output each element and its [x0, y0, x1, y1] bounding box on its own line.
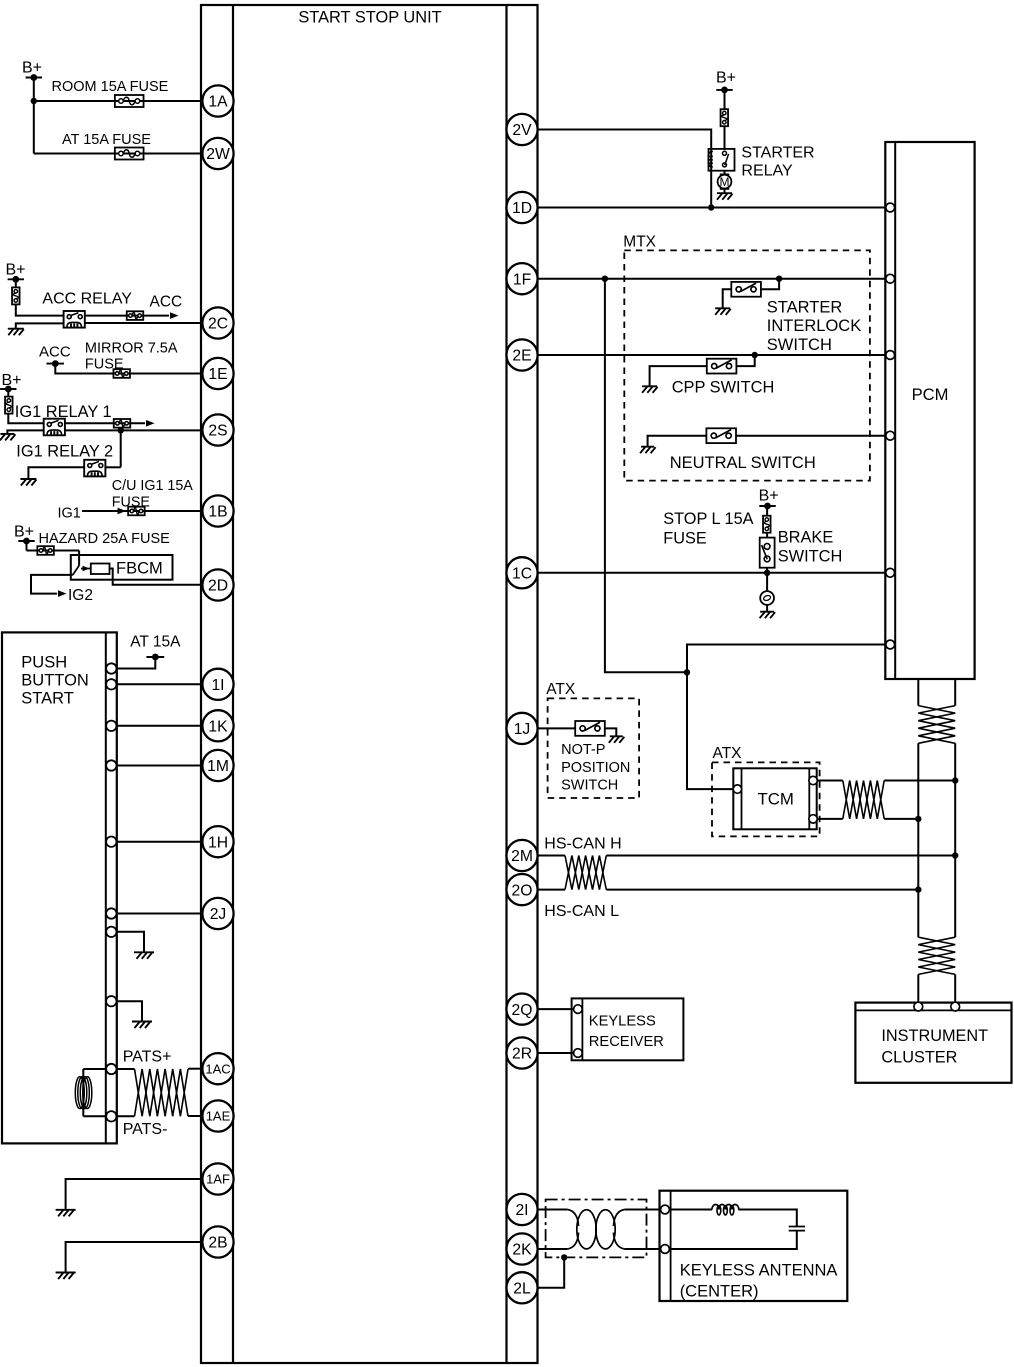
svg-text:ACC RELAY: ACC RELAY — [42, 291, 132, 308]
svg-text:ATX: ATX — [546, 681, 576, 698]
starter relay contacts — [723, 151, 727, 155]
ground stop lamp — [760, 612, 776, 619]
arrow IG1 feed — [146, 420, 155, 427]
starter motor — [721, 174, 729, 189]
wire button to 1M — [117, 765, 203, 767]
fuse STOP L 15A — [763, 516, 771, 533]
wire NEUTRAL to PCM — [736, 435, 885, 437]
PCM pin 1D-side — [886, 203, 895, 212]
pin 2V — [506, 114, 537, 145]
wire TCM CAN-H — [817, 780, 843, 782]
pin 1AE — [202, 1100, 233, 1131]
twisted pair TCM — [843, 781, 884, 819]
wire 1C to PCM — [538, 572, 886, 574]
wire button ground 1 — [117, 932, 145, 952]
svg-text:1J: 1J — [514, 721, 531, 738]
node junction TCM feed — [684, 669, 690, 675]
svg-text:MTX: MTX — [623, 234, 656, 251]
svg-text:POSITION: POSITION — [561, 760, 630, 776]
wire antenna to inductor — [669, 1209, 712, 1211]
fuse ROOM 15A — [115, 95, 144, 107]
wire relay to motor — [724, 171, 726, 175]
pin 1D — [506, 192, 537, 223]
svg-text:RECEIVER: RECEIVER — [589, 1034, 664, 1050]
wire B+ to fuse — [724, 90, 726, 110]
svg-text:1H: 1H — [208, 834, 228, 851]
antenna pin bottom — [661, 1245, 670, 1254]
svg-text:2C: 2C — [208, 316, 228, 333]
svg-text:HS-CAN L: HS-CAN L — [544, 903, 619, 920]
svg-text:(CENTER): (CENTER) — [680, 1282, 759, 1300]
wire button to 1K — [117, 725, 203, 727]
wire TCM CAN-H to trunk — [884, 780, 955, 782]
wire motor to ground — [724, 188, 726, 192]
wire inductor to capacitor — [738, 1210, 797, 1227]
fuse starter relay B+ — [721, 109, 729, 126]
wire resistor to 2D — [110, 569, 203, 585]
ground starter interlock — [715, 308, 731, 315]
svg-text:B+: B+ — [759, 488, 779, 505]
push-button pin 7 — [106, 927, 116, 937]
svg-text:STARTER: STARTER — [767, 299, 843, 317]
wire B+ down — [26, 541, 28, 551]
wire ACC feed — [85, 315, 169, 317]
pin 2K — [506, 1233, 537, 1264]
wire relay1 coil left to ground — [7, 430, 43, 433]
pin 2L — [506, 1272, 537, 1303]
svg-text:BRAKE: BRAKE — [778, 529, 834, 547]
svg-text:1A: 1A — [208, 94, 228, 111]
fuse MIRROR 7.5A — [113, 369, 130, 378]
wire to FBCM — [27, 550, 80, 552]
node junction B+/1A — [31, 98, 37, 104]
wire relay2 coil to ground — [28, 467, 84, 478]
fuse ACC relay B+ — [12, 287, 19, 304]
wire B+ to fuse — [15, 279, 17, 287]
wire fuse to switch — [724, 125, 726, 150]
receiver pin 2R-side — [574, 1049, 583, 1058]
wire trunk left — [917, 743, 919, 937]
svg-text:B+: B+ — [716, 70, 736, 87]
svg-text:MIRROR 7.5A: MIRROR 7.5A — [85, 340, 178, 356]
node AT 15A tap — [146, 656, 164, 658]
svg-text:START STOP UNIT: START STOP UNIT — [298, 9, 441, 27]
wire button to 2J — [117, 913, 203, 915]
svg-text:2S: 2S — [208, 423, 227, 440]
node junction shield/2L — [561, 1254, 567, 1260]
svg-text:PATS-: PATS- — [123, 1121, 168, 1138]
wire interlock right — [761, 279, 779, 290]
wire NOT-P right to ground — [605, 728, 617, 735]
pin 2S — [202, 414, 233, 445]
wire HS-CAN L — [606, 889, 918, 891]
coil PATS transponder — [75, 1077, 84, 1109]
svg-text:INSTRUMENT: INSTRUMENT — [881, 1027, 988, 1045]
node junction CAN-L TCM — [915, 816, 921, 822]
wire trunk right — [954, 743, 956, 937]
svg-text:RELAY: RELAY — [741, 163, 793, 180]
ground CPP switch — [642, 386, 658, 393]
svg-text:STARTER: STARTER — [741, 144, 814, 161]
svg-text:1AE: 1AE — [206, 1109, 231, 1124]
svg-text:B+: B+ — [14, 524, 34, 541]
pin 1M — [202, 750, 233, 781]
fuse IG1 feed — [114, 419, 131, 428]
wire 1F to PCM — [538, 278, 886, 280]
wire B+ to fuse — [7, 389, 9, 397]
pin 2M — [506, 840, 537, 871]
push-button pin 3 — [106, 721, 116, 731]
stop lamp — [760, 591, 774, 605]
svg-text:STOP L 15A: STOP L 15A — [663, 510, 753, 528]
svg-text:B+: B+ — [22, 60, 42, 77]
svg-text:IG1 RELAY 2: IG1 RELAY 2 — [16, 443, 113, 461]
pin 1A — [202, 85, 233, 116]
wire 2V to relay — [538, 130, 712, 208]
svg-text:HAZARD 25A FUSE: HAZARD 25A FUSE — [39, 531, 171, 547]
wire button to 1I — [117, 683, 203, 685]
pin 1K — [202, 710, 233, 741]
svg-text:2R: 2R — [512, 1046, 532, 1063]
ATX dashed box (NOT-P) — [548, 698, 640, 798]
wire coil bottom — [83, 1115, 106, 1117]
fuse IG1 relay B+ — [5, 397, 13, 414]
relay ACC — [64, 311, 85, 328]
fuse AT 15A — [115, 148, 144, 160]
pin 1AF — [202, 1163, 233, 1194]
pin 2D — [202, 569, 233, 600]
switch STARTER INTERLOCK — [731, 282, 761, 297]
starter relay box — [709, 149, 735, 171]
node junction CPP — [752, 352, 758, 358]
wire B+ to fuse — [766, 506, 768, 516]
ground starter motor — [717, 193, 733, 200]
pin 1B — [202, 495, 233, 526]
wire 1J to switch — [538, 727, 576, 729]
wire cluster left — [917, 974, 919, 1002]
push-button pin 8 — [106, 996, 116, 1006]
cluster pin right — [951, 1002, 960, 1011]
svg-text:HS-CAN H: HS-CAN H — [544, 836, 621, 853]
KEYLESS ANTENNA box — [660, 1191, 848, 1301]
svg-text:2E: 2E — [512, 348, 531, 365]
svg-text:CLUSTER: CLUSTER — [881, 1048, 957, 1066]
relay IG1 RELAY 1 — [44, 419, 65, 436]
wire 2E to PCM — [538, 354, 886, 356]
svg-text:AT 15A: AT 15A — [130, 633, 181, 650]
ground 1AF — [56, 1210, 76, 1217]
wire to 1AE — [188, 1115, 203, 1117]
svg-text:2B: 2B — [208, 1235, 227, 1252]
svg-text:2K: 2K — [512, 1242, 532, 1259]
wire PCM stub left — [917, 679, 919, 706]
wire PCM stub right — [954, 679, 956, 706]
wire fuse to brake switch — [766, 533, 768, 538]
inductor antenna coil — [712, 1205, 719, 1210]
wire to 1A — [34, 100, 203, 102]
wire interlock left to ground — [723, 289, 732, 307]
pin 2W — [202, 138, 233, 169]
ground push button 2 — [132, 1022, 152, 1029]
push-button pin 2 — [106, 679, 116, 689]
switch NOT-P POSITION — [575, 721, 605, 736]
pin 2O — [506, 874, 537, 905]
wire coil vertical — [82, 1069, 84, 1116]
svg-text:1AF: 1AF — [206, 1172, 230, 1187]
starter relay coil — [708, 151, 713, 167]
fuse C/U IG1 15A — [128, 507, 145, 516]
node junction HS-CAN H — [952, 852, 958, 858]
wire PCM to junction — [687, 645, 886, 673]
svg-text:2M: 2M — [511, 848, 533, 865]
wire cluster right — [954, 974, 956, 1002]
wire ACC to 1E — [55, 364, 202, 374]
node junction 1F branch — [602, 276, 608, 282]
svg-text:1AC: 1AC — [205, 1061, 230, 1076]
transistor FBCM — [73, 566, 79, 575]
pin 2C — [202, 307, 233, 338]
ground push button 1 — [134, 952, 154, 959]
coaxial cable loops — [577, 1210, 596, 1249]
pin 2B — [202, 1226, 233, 1257]
svg-text:CPP SWITCH: CPP SWITCH — [672, 378, 775, 396]
wire cable to antenna bottom — [625, 1248, 661, 1250]
twisted pair PATS — [135, 1069, 189, 1116]
wire fuse to relay — [16, 304, 64, 315]
wire TCM CAN-L to trunk — [884, 818, 918, 820]
svg-text:B+: B+ — [2, 372, 22, 389]
wire IG1 feed — [65, 422, 145, 424]
MTX dashed box — [624, 250, 870, 480]
svg-text:FUSE: FUSE — [663, 530, 707, 548]
wire to 1AC — [188, 1068, 203, 1070]
wire relay coil to ground — [16, 323, 64, 328]
wire brake to 1C wire — [766, 568, 768, 573]
ground IG1 relay2 — [20, 479, 36, 486]
FBCM box — [71, 555, 173, 580]
fuse ACC feed — [127, 311, 144, 320]
svg-text:SWITCH: SWITCH — [778, 547, 843, 565]
wire fuse to relay1 — [8, 413, 44, 423]
PCM box — [885, 142, 974, 679]
switch CPP — [707, 359, 737, 374]
receiver pin 2Q-side — [574, 1005, 583, 1014]
svg-text:ACC: ACC — [39, 344, 71, 361]
svg-text:INTERLOCK: INTERLOCK — [767, 317, 861, 335]
wire AT tap to button — [117, 657, 156, 669]
svg-text:1K: 1K — [208, 719, 228, 736]
PCM pin 1C-side — [886, 568, 895, 577]
wire button ground 2 — [117, 1001, 143, 1021]
wire relay1 to 2S — [65, 429, 203, 431]
push-button pin 1 — [106, 663, 116, 673]
pin 2R — [506, 1037, 537, 1068]
svg-text:ACC: ACC — [150, 294, 183, 311]
wire junction down to relay2 — [120, 430, 122, 467]
wire 1AF to ground — [66, 1179, 203, 1209]
switch BRAKE — [760, 538, 775, 568]
svg-text:1F: 1F — [513, 271, 531, 288]
svg-text:SWITCH: SWITCH — [767, 336, 832, 354]
svg-text:SWITCH: SWITCH — [561, 777, 618, 793]
wire 2R to receiver — [538, 1052, 574, 1054]
wire button to 1H — [117, 841, 203, 843]
pin 2I — [506, 1194, 537, 1225]
wire 2O lead — [538, 889, 565, 891]
wire HS-CAN H — [606, 855, 955, 857]
wire to stop lamp — [766, 573, 768, 592]
wire into transistor — [78, 551, 80, 566]
svg-text:2W: 2W — [206, 146, 230, 163]
wire junction to TCM — [687, 672, 733, 789]
wire PATS+ lead — [117, 1068, 135, 1070]
svg-text:IG2: IG2 — [68, 587, 93, 604]
ground ACC relay — [8, 329, 24, 336]
svg-text:KEYLESS: KEYLESS — [589, 1013, 656, 1029]
TCM pin right bottom — [809, 815, 817, 823]
ATX dashed box (TCM) — [712, 762, 820, 836]
ground 2B — [56, 1273, 76, 1280]
wire 2I lead — [538, 1209, 568, 1211]
svg-text:NOT-P: NOT-P — [561, 742, 605, 758]
wire 2K lead — [538, 1248, 568, 1250]
fuse HAZARD 25A — [37, 546, 54, 555]
wire cable to antenna top — [625, 1209, 661, 1211]
pin 1C — [506, 557, 537, 588]
svg-text:1B: 1B — [208, 504, 227, 521]
svg-text:BUTTON: BUTTON — [21, 672, 89, 690]
cluster pin left — [914, 1002, 923, 1011]
svg-text:2J: 2J — [210, 906, 227, 923]
svg-text:START: START — [21, 690, 74, 708]
switch NEUTRAL — [706, 428, 736, 443]
PCM pin TCM-side — [886, 640, 895, 649]
wire NEUTRAL left to ground — [648, 436, 707, 446]
svg-text:2I: 2I — [515, 1202, 528, 1219]
arrow IG2 — [58, 590, 67, 597]
svg-text:1M: 1M — [207, 758, 229, 775]
push-button pin 9 — [106, 1064, 116, 1074]
push-button pin 10 — [106, 1111, 116, 1121]
svg-text:ROOM 15A FUSE: ROOM 15A FUSE — [52, 79, 169, 95]
ground IG1 relay1 — [0, 434, 15, 441]
wire relay2 right — [105, 466, 120, 468]
svg-text:1D: 1D — [512, 200, 532, 217]
wire 2Q to receiver — [538, 1008, 574, 1010]
svg-text:2V: 2V — [512, 122, 532, 139]
antenna pin top — [661, 1205, 670, 1214]
svg-text:FBCM: FBCM — [116, 560, 163, 578]
INSTRUMENT CLUSTER box — [855, 1003, 1011, 1083]
wire relay to 2C — [85, 322, 203, 324]
ground NEUTRAL switch — [640, 447, 656, 454]
pin 2E — [506, 339, 537, 370]
svg-text:PATS+: PATS+ — [123, 1049, 172, 1066]
svg-text:TCM: TCM — [758, 790, 794, 809]
svg-text:AT 15A FUSE: AT 15A FUSE — [62, 132, 151, 148]
svg-text:ATX: ATX — [713, 745, 743, 762]
svg-text:IG1: IG1 — [58, 506, 81, 522]
wire TCM CAN-L — [817, 818, 843, 820]
wire capacitor to antenna pin — [669, 1231, 796, 1249]
PCM pin 1F-side — [886, 274, 895, 283]
node junction HS-CAN L — [915, 886, 921, 892]
svg-text:2O: 2O — [512, 882, 533, 899]
svg-text:KEYLESS ANTENNA: KEYLESS ANTENNA — [680, 1262, 838, 1280]
PCM pin 2E-side — [886, 351, 895, 360]
wire 1F branch down — [605, 279, 687, 673]
wire PATS- lead — [117, 1115, 135, 1117]
PUSH BUTTON START box — [2, 632, 117, 1143]
pin 1H — [202, 826, 233, 857]
svg-text:2D: 2D — [208, 578, 228, 595]
pin 1AC — [202, 1053, 233, 1084]
pin 1J — [506, 713, 537, 744]
capacitor antenna — [789, 1226, 805, 1228]
wire B+ vertical — [33, 78, 35, 154]
KEYLESS RECEIVER box — [572, 998, 684, 1060]
push-button pin 5 — [106, 837, 116, 847]
node junction interlock — [776, 276, 782, 282]
wire CPP left to ground — [650, 366, 707, 385]
svg-text:C/U IG1 15A: C/U IG1 15A — [112, 478, 194, 494]
wire lamp to ground — [766, 605, 768, 611]
node junction brake/1C — [764, 570, 770, 576]
ground NOT-P switch — [609, 736, 625, 743]
svg-text:M: M — [720, 175, 730, 189]
wire CPP right — [736, 355, 754, 366]
pin 1F — [506, 263, 537, 294]
svg-text:2L: 2L — [513, 1281, 531, 1298]
wire coil top — [83, 1068, 106, 1070]
wire 2L to shield — [538, 1257, 565, 1287]
arrow IG1 wire — [118, 508, 127, 515]
arrow ACC feed — [170, 312, 179, 319]
pin 1I — [202, 669, 233, 700]
relay IG1 RELAY 2 — [84, 460, 105, 477]
node junction relay/1D — [708, 204, 714, 210]
twisted pair HS-CAN — [565, 856, 606, 890]
node junction CAN-H TCM — [952, 777, 958, 783]
wire 1D to PCM — [538, 207, 886, 209]
pin 2Q — [506, 994, 537, 1025]
push-button pin 6 — [106, 908, 116, 918]
svg-text:2Q: 2Q — [512, 1002, 533, 1019]
PCM pin neutral-side — [886, 431, 895, 440]
START STOP UNIT box — [201, 5, 538, 1363]
wire 2M lead — [538, 855, 565, 857]
svg-text:1C: 1C — [512, 566, 532, 583]
svg-text:PUSH: PUSH — [21, 653, 67, 671]
twisted pair above cluster — [918, 937, 955, 974]
push-button pin 4 — [106, 760, 116, 770]
pin 1E — [202, 358, 233, 389]
twisted pair below PCM — [918, 706, 955, 744]
svg-text:1I: 1I — [211, 677, 224, 694]
TCM pin left — [733, 785, 741, 793]
TCM box — [733, 768, 816, 829]
shield dash-dot box — [546, 1200, 647, 1258]
svg-text:1E: 1E — [208, 366, 227, 383]
wire IG1 to 1B — [82, 510, 203, 512]
wire to 2W — [34, 153, 203, 155]
TCM pin right top — [809, 776, 817, 784]
wire collector to IG2 — [31, 575, 73, 594]
svg-text:PCM: PCM — [912, 385, 949, 404]
wire 2B to ground — [66, 1242, 203, 1272]
node ACC tap — [47, 363, 65, 365]
pin 2J — [202, 898, 233, 929]
